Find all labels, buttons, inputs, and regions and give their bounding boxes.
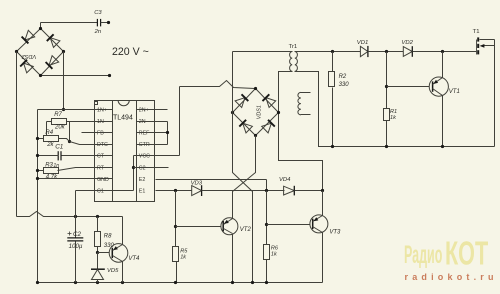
diode VDS2 bottom-left <box>24 63 34 73</box>
wire C1 to CT pin <box>62 155 113 157</box>
resistor R1 <box>384 109 390 121</box>
svg-text:VD3: VD3 <box>191 181 203 187</box>
svg-text:CT: CT <box>97 154 105 160</box>
zener diode VD5 <box>97 253 99 270</box>
wire rail to R3 <box>38 170 44 172</box>
svg-text:GND: GND <box>97 177 109 183</box>
pin stub 2N+ <box>137 109 168 111</box>
wire R5 riser <box>175 191 177 247</box>
diode VDS2 top-left <box>25 30 35 40</box>
node VDS1 bottom vertex <box>254 134 257 137</box>
wire ground rail <box>38 282 323 284</box>
svg-text:КОТ: КОТ <box>445 235 488 272</box>
svg-text:C1: C1 <box>55 143 64 150</box>
svg-text:330: 330 <box>339 82 350 88</box>
node VT1 base feed <box>385 50 388 53</box>
svg-text:Радио: Радио <box>404 241 442 269</box>
node VDS1 left vertex <box>231 111 234 114</box>
wire R7 left down to R4 <box>47 121 52 123</box>
diode VD3 <box>192 186 202 196</box>
svg-text:2N-: 2N- <box>139 119 148 125</box>
wire R7 net down to DTC junction <box>69 122 71 142</box>
svg-text:VD5: VD5 <box>107 268 119 274</box>
svg-text:1n: 1n <box>53 163 59 169</box>
svg-text:VD4: VD4 <box>279 177 291 183</box>
svg-text:R2: R2 <box>339 74 347 80</box>
svg-text:VT2: VT2 <box>240 227 252 233</box>
node C2 pin junction <box>132 166 135 169</box>
wire VT1 base feed riser <box>386 52 388 109</box>
wire C3 to mains terminal <box>101 22 109 24</box>
wire VT4 collector <box>122 217 124 245</box>
resistor R3 <box>44 168 59 174</box>
wire R5 bottom <box>176 262 178 283</box>
wire E2 pin net <box>156 179 267 181</box>
wire R7 right to 1N- <box>67 121 113 123</box>
svg-text:C1: C1 <box>97 188 104 194</box>
wire junction to VT3 <box>322 191 324 216</box>
wire VDS2 right vertex down to 1N+ net <box>63 52 65 110</box>
svg-text:VDS1: VDS1 <box>257 105 263 119</box>
svg-text:TL494: TL494 <box>113 115 133 122</box>
wire secondary top rail <box>295 51 361 53</box>
svg-text:2N+: 2N+ <box>139 108 149 114</box>
node VDS1 top vertex <box>254 87 257 90</box>
svg-text:VCC: VCC <box>139 154 150 160</box>
wire VT3 collector to ground rail <box>322 233 324 283</box>
node VT1 base junction <box>385 85 388 88</box>
svg-text:1N-: 1N- <box>97 119 106 125</box>
svg-text:4.7k: 4.7k <box>46 175 58 181</box>
svg-text:20k: 20k <box>54 125 66 131</box>
wire R1 bottom <box>386 121 388 147</box>
svg-text:C3: C3 <box>94 10 102 16</box>
diode VDS1 bottom-right <box>262 123 272 133</box>
node rail-R4 <box>36 137 39 140</box>
diode VD4 <box>284 186 295 195</box>
wire top rail left segment <box>233 51 293 53</box>
svg-text:100µ: 100µ <box>69 243 83 250</box>
wire VCC pin through IC <box>134 155 180 157</box>
transformer Tr1 primary winding <box>290 52 293 72</box>
node VDS2 top vertex <box>39 27 42 30</box>
transformer Tr1 coupled winding <box>295 52 298 72</box>
diode VD1 <box>360 46 368 56</box>
node C2 top junction <box>74 215 77 218</box>
node rail-GND <box>36 177 39 180</box>
wire 2N- to CTR tie <box>137 121 168 123</box>
resistor R2 <box>332 52 334 72</box>
transistor VT1 <box>429 77 448 96</box>
svg-text:E1: E1 <box>139 188 146 194</box>
transformer Tr1 feedback winding <box>298 92 301 114</box>
capacitor C1 <box>57 151 59 160</box>
node R5 top <box>174 189 177 192</box>
diode VD2 <box>403 47 412 57</box>
diode VDS2 top-right <box>50 38 60 48</box>
pin stub REF <box>137 132 168 134</box>
node rail-R3 <box>36 169 39 172</box>
watermark logo <box>404 235 488 272</box>
node VT2 base junction <box>174 225 177 228</box>
node R1-rail <box>385 145 388 148</box>
wire VDS2 left vertex down <box>16 52 18 217</box>
svg-text:Tr1: Tr1 <box>289 44 298 50</box>
op-amp U1 TL494 body <box>95 101 155 202</box>
svg-text:T1: T1 <box>473 29 480 35</box>
wire VT2 base <box>176 226 221 228</box>
svg-text:VD2: VD2 <box>401 40 413 46</box>
svg-text:CTR: CTR <box>139 142 150 148</box>
node R2 bottom <box>331 145 334 148</box>
node VDS2 right vertex <box>62 50 65 53</box>
capacitor C2 <box>75 217 77 238</box>
wire VD4 to VT3 junction <box>295 190 323 192</box>
resistor R4 <box>44 136 59 142</box>
svg-text:R3: R3 <box>45 162 53 168</box>
node 1N+ junction <box>62 108 65 111</box>
node R2 top <box>331 50 334 53</box>
svg-text:VD1: VD1 <box>357 40 368 46</box>
node ground VT2 <box>231 281 234 284</box>
wire rail corner to VDS1 left vertex <box>232 52 234 113</box>
wire IC internal VCC-C2-C1 link <box>133 156 135 191</box>
wire R4 right to junction <box>59 139 70 142</box>
resistor R6 <box>264 245 270 260</box>
wire VD3 to VD4 <box>202 190 285 192</box>
node R6 top <box>265 189 268 192</box>
wire hop-over to VDS1 top vertex <box>180 81 256 89</box>
wire VT4 base <box>98 252 110 254</box>
svg-text:2k: 2k <box>46 142 54 148</box>
svg-text:RT: RT <box>97 165 105 171</box>
wire VT1 collector <box>442 52 444 78</box>
wire mains top from bridge to C3 <box>40 23 42 29</box>
node ground VT4 <box>121 281 124 284</box>
wire C1 pin to storage cap <box>76 190 134 192</box>
resistor R5 <box>173 247 179 262</box>
pin stub C2 <box>134 167 169 169</box>
svg-text:2n: 2n <box>94 29 101 35</box>
node ground rail <box>36 281 39 284</box>
wire E1 pin net <box>156 190 192 192</box>
wire secondary lower lead to output rail <box>295 72 495 147</box>
svg-text:R7: R7 <box>54 112 62 118</box>
svg-text:DTC: DTC <box>97 142 108 148</box>
node VT1 emitter-rail <box>441 145 444 148</box>
diode VDS1 top-right <box>266 98 276 108</box>
diode VDS1 bottom-left <box>243 123 253 133</box>
wire VT2 collector to ground rail <box>232 235 234 283</box>
wire rail to GND pin <box>38 178 113 180</box>
svg-text:220 V ~: 220 V ~ <box>112 46 149 58</box>
bridge rectifier VDS2 frame <box>17 29 64 76</box>
node REF tie <box>166 131 169 134</box>
transistor VT3 <box>310 215 328 233</box>
wire hop-over to VT4 collector <box>17 212 123 217</box>
wire VT1 base <box>387 86 430 88</box>
wire VCC riser to bridge feed <box>179 87 181 156</box>
pin stub FB <box>82 132 113 134</box>
svg-text:VT4: VT4 <box>128 256 140 262</box>
node ground R5 <box>174 281 177 284</box>
node VT4 base junction <box>96 251 99 254</box>
svg-text:REF: REF <box>139 131 150 137</box>
svg-text:R4: R4 <box>45 130 53 136</box>
transistor VT2 <box>221 218 238 235</box>
svg-text:1N+: 1N+ <box>97 108 107 114</box>
node VT3 base junction <box>265 223 268 226</box>
svg-text:E2: E2 <box>139 177 146 183</box>
node VT3 emitter junction <box>321 189 324 192</box>
resistor R8 <box>97 217 99 232</box>
wire rail to R4 <box>38 138 44 140</box>
wire primary bottom to VDS1 right vertex <box>279 72 323 191</box>
diode VDS2 bottom-right <box>49 56 59 66</box>
svg-text:C2: C2 <box>139 165 146 171</box>
wire VDS1 bottom vertex crossover to VT2 emitter <box>233 136 256 219</box>
node DTC junction <box>68 140 71 143</box>
node ground VD5 <box>96 281 99 284</box>
node mains terminal N <box>108 74 111 77</box>
wire R3 right to RT pin <box>58 168 113 171</box>
node mains terminal L <box>107 21 110 24</box>
wire VD1 to VD2 <box>368 51 404 53</box>
wire VT3 base <box>267 224 310 226</box>
wire VDS1 left vertex crossover to ground rail <box>233 113 253 283</box>
wire left rail <box>37 110 39 283</box>
svg-text:VDS2: VDS2 <box>21 53 37 59</box>
node rail-C1 <box>36 154 39 157</box>
wire 1N+ net <box>38 109 113 111</box>
node VDS2 bottom vertex <box>39 74 42 77</box>
svg-text:radiokot.ru: radiokot.ru <box>405 272 498 282</box>
wire R6 bottom <box>266 260 268 283</box>
wire VD2 to T1 <box>413 51 477 53</box>
svg-text:VT3: VT3 <box>329 230 341 236</box>
svg-text:FB: FB <box>97 131 104 137</box>
wire VT4 emitter <box>122 262 124 283</box>
node ground R6 <box>265 281 268 284</box>
svg-text:VT1: VT1 <box>449 89 460 95</box>
wire junction to DTC pin <box>70 142 113 145</box>
wire rail to C1 <box>38 155 59 157</box>
capacitor C3 <box>96 19 98 27</box>
transistor VT4 <box>109 244 128 263</box>
svg-text:C2: C2 <box>73 231 81 238</box>
wire R6 riser <box>266 191 268 245</box>
node ground C2 <box>74 281 77 284</box>
node ground xover <box>251 281 254 284</box>
wire T1 return down right edge <box>494 40 496 147</box>
bridge rectifier VDS1 frame <box>233 89 279 136</box>
node VDS1 right vertex <box>277 111 280 114</box>
node R8 top junction <box>96 215 99 218</box>
diode VDS1 top-left <box>235 98 245 108</box>
wire VT1 emitter <box>442 96 444 147</box>
node VDS2 left vertex <box>15 50 18 53</box>
svg-text:R8: R8 <box>104 233 112 239</box>
resistor R7 <box>52 119 67 125</box>
node VT1 collector junction <box>441 50 444 53</box>
wire bridge bottom to mains terminal N <box>41 75 110 77</box>
